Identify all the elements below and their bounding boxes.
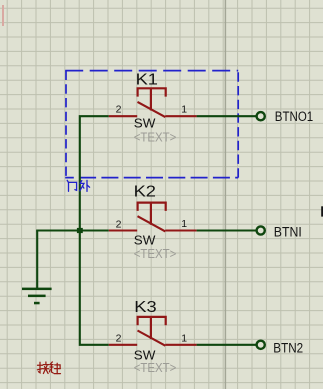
svg-text:K2: K2 xyxy=(134,184,157,201)
svg-text:K1: K1 xyxy=(136,71,159,88)
selection box (dashed blue) top edge xyxy=(65,70,238,72)
wire: K1 pin2 to vertical bus down to K3 pin2 xyxy=(80,116,109,345)
switch K3 left pin (pin 2) xyxy=(109,344,137,346)
svg-text:<TEXT>: <TEXT> xyxy=(134,247,177,261)
terminal BTN2 circle xyxy=(257,341,265,349)
switch K2 left pin (pin 2) xyxy=(109,229,137,231)
selection box left edge xyxy=(65,71,67,178)
svg-text:BTNI: BTNI xyxy=(274,225,302,240)
terminal BTNI circle xyxy=(257,226,265,234)
wire to terminal BTNI xyxy=(197,229,256,231)
junction at bus/K2 wire xyxy=(77,228,83,233)
switch K3 lever xyxy=(138,331,166,346)
svg-text:2: 2 xyxy=(116,333,122,345)
switch K1 actuator bracket xyxy=(138,88,166,96)
switch K1 right pin (pin 1) xyxy=(165,115,196,117)
switch K2 actuator stem xyxy=(150,203,152,225)
svg-text:SW: SW xyxy=(134,116,156,130)
switch K3 actuator bracket xyxy=(138,317,166,325)
svg-text:1: 1 xyxy=(181,103,187,115)
switch K3 right pin (pin 1) xyxy=(165,344,196,346)
svg-text:<TEXT>: <TEXT> xyxy=(134,130,177,144)
svg-text:2: 2 xyxy=(116,104,122,116)
svg-text:1: 1 xyxy=(181,332,187,344)
svg-text:BTNO1: BTNO1 xyxy=(275,109,313,124)
switch K2 right pin (pin 1) xyxy=(165,229,196,231)
svg-text:K3: K3 xyxy=(134,299,157,316)
wire to terminal BTNO1 xyxy=(197,115,256,117)
switch K2 actuator bracket xyxy=(138,203,166,211)
switch K1 left pin (pin 2) xyxy=(109,115,137,117)
terminal BTNO1 circle xyxy=(257,112,265,120)
svg-text:BTN2: BTN2 xyxy=(273,340,303,355)
wire to terminal BTN2 xyxy=(197,344,256,346)
ground symbol xyxy=(22,288,52,305)
annotation 按钮 (dark red) xyxy=(37,362,60,374)
wire: down to ground xyxy=(36,231,38,289)
svg-text:2: 2 xyxy=(116,218,122,230)
switch K3 actuator stem xyxy=(150,317,152,339)
svg-text:<TEXT>: <TEXT> xyxy=(134,361,177,375)
text fragment cut at right edge xyxy=(321,206,323,216)
selection box right edge xyxy=(237,71,239,178)
wire: ground to K2 pin2 xyxy=(36,229,109,231)
switch K1 lever xyxy=(138,102,166,117)
selection box bottom edge xyxy=(65,177,238,179)
svg-text:SW: SW xyxy=(134,234,156,248)
switch K2 lever xyxy=(138,216,166,231)
svg-text:1: 1 xyxy=(181,218,187,230)
annotation 门外 (blue) xyxy=(67,180,89,191)
switch K1 actuator stem xyxy=(150,88,152,110)
